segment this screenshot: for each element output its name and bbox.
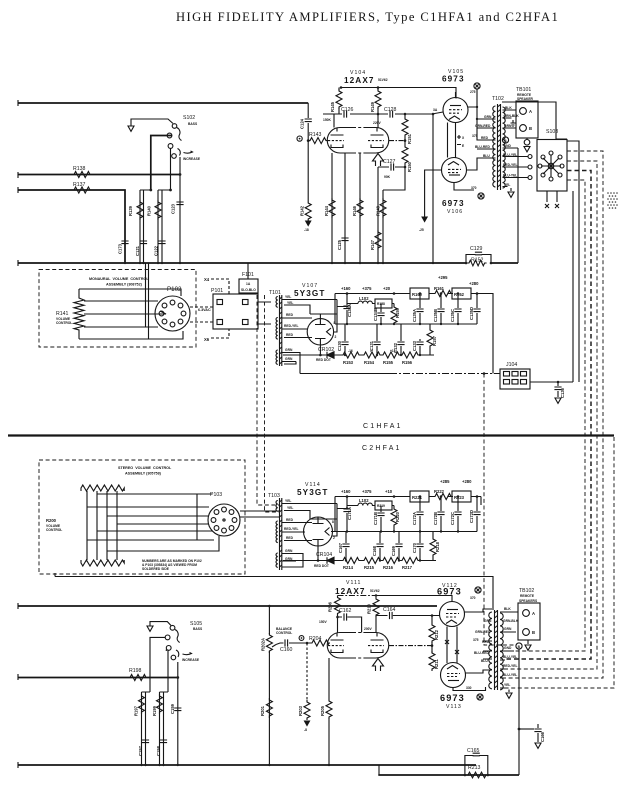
svg-text:T103: T103 <box>268 493 280 499</box>
svg-text:R216: R216 <box>383 565 394 570</box>
svg-text:12AX7: 12AX7 <box>344 76 375 85</box>
svg-text:YEL: YEL <box>287 506 293 510</box>
svg-text:+375: +375 <box>362 286 372 291</box>
svg-text:R149: R149 <box>370 101 375 112</box>
svg-text:INCREASE: INCREASE <box>183 157 201 161</box>
svg-text:YEL: YEL <box>285 499 291 503</box>
svg-text:C135A: C135A <box>412 309 417 322</box>
svg-text:R143: R143 <box>309 132 322 138</box>
svg-text:R139: R139 <box>128 205 133 216</box>
svg-text:C167: C167 <box>338 542 343 553</box>
svg-text:BLU-RED: BLU-RED <box>475 145 490 149</box>
svg-text:C172A: C172A <box>412 512 417 525</box>
svg-text:+375: +375 <box>362 489 372 494</box>
svg-text:C136: C136 <box>560 387 565 398</box>
svg-text:+285: +285 <box>440 479 450 484</box>
svg-text:GRN: GRN <box>285 549 293 553</box>
svg-text:375: 375 <box>472 134 478 138</box>
svg-text:BASS: BASS <box>188 122 198 126</box>
svg-text:+280: +280 <box>469 281 479 286</box>
svg-text:51V62: 51V62 <box>378 78 388 82</box>
svg-text:C171B: C171B <box>373 512 378 525</box>
svg-text:GRN: GRN <box>504 627 512 631</box>
svg-text:R148: R148 <box>376 205 381 216</box>
svg-text:R206: R206 <box>328 601 333 612</box>
svg-text:150K: 150K <box>323 118 332 122</box>
svg-text:51V62: 51V62 <box>370 589 380 593</box>
svg-text:-25: -25 <box>419 228 424 232</box>
svg-text:GND: GND <box>504 646 512 650</box>
svg-text:275: 275 <box>470 90 476 94</box>
svg-text:BLK: BLK <box>504 607 511 611</box>
svg-text:S102: S102 <box>183 115 195 121</box>
svg-text:RED: RED <box>286 313 294 317</box>
svg-text:A: A <box>529 109 532 114</box>
svg-text:C122: C122 <box>154 245 159 256</box>
svg-text:2: 2 <box>333 536 335 540</box>
svg-text:STEREO VOLUME CONTROL: STEREO VOLUME CONTROL <box>118 466 172 470</box>
svg-text:R200: R200 <box>46 518 57 523</box>
svg-text:5Y3GT: 5Y3GT <box>297 488 328 497</box>
svg-text:+280: +280 <box>462 479 472 484</box>
svg-text:R223: R223 <box>454 495 465 500</box>
svg-text:C132: C132 <box>393 342 398 353</box>
svg-text:6973: 6973 <box>440 693 465 703</box>
svg-text:R151: R151 <box>407 133 412 144</box>
svg-text:6973: 6973 <box>442 75 465 84</box>
svg-text:C158: C158 <box>156 745 161 756</box>
svg-text:R217: R217 <box>402 565 413 570</box>
svg-text:T102: T102 <box>492 96 504 102</box>
svg-text:6973: 6973 <box>442 199 465 208</box>
svg-text:GRN-RED: GRN-RED <box>475 124 491 128</box>
svg-text:V113: V113 <box>446 704 462 710</box>
svg-text:BLU: BLU <box>483 154 490 158</box>
svg-text:3A: 3A <box>433 108 438 112</box>
svg-text:+160: +160 <box>341 286 351 291</box>
svg-text:R212: R212 <box>434 629 439 640</box>
svg-text:P101: P101 <box>211 288 223 294</box>
svg-text:5Y3GT: 5Y3GT <box>294 289 325 298</box>
svg-text:BLK: BLK <box>505 106 512 110</box>
svg-text:C135C: C135C <box>450 309 455 322</box>
svg-text:R155: R155 <box>383 360 394 365</box>
svg-text:B: B <box>532 630 535 635</box>
svg-text:C169: C169 <box>391 545 396 556</box>
svg-text:-8: -8 <box>304 728 307 732</box>
svg-text:+20: +20 <box>383 286 391 291</box>
svg-text:C124: C124 <box>300 118 305 129</box>
svg-text:R157: R157 <box>432 335 437 346</box>
svg-text:SPEAKERS: SPEAKERS <box>519 599 538 603</box>
svg-text:C157: C157 <box>138 745 143 756</box>
svg-text:R220: R220 <box>395 511 400 522</box>
svg-text:RED DOT: RED DOT <box>316 358 331 362</box>
svg-text:R218: R218 <box>435 541 440 552</box>
svg-text:R146: R146 <box>352 205 357 216</box>
svg-text:R160: R160 <box>412 292 423 297</box>
svg-text:-18: -18 <box>304 228 309 232</box>
svg-text:L102: L102 <box>359 296 369 301</box>
svg-text:GRN: GRN <box>504 124 512 128</box>
svg-text:R201: R201 <box>260 705 265 716</box>
svg-text:R205: R205 <box>320 705 325 716</box>
svg-text:R221: R221 <box>412 495 423 500</box>
svg-text:2: 2 <box>335 335 337 339</box>
svg-text:R161: R161 <box>434 286 445 291</box>
svg-text:MONAURAL VOLUME CONTROL: MONAURAL VOLUME CONTROL <box>89 277 149 281</box>
svg-text:BLU-YEL: BLU-YEL <box>503 174 517 178</box>
svg-text:A: A <box>532 611 535 616</box>
svg-text:BLU: BLU <box>481 659 488 663</box>
svg-text:V111: V111 <box>346 580 361 586</box>
svg-text:GND: GND <box>504 144 512 148</box>
svg-text:V106: V106 <box>447 209 463 215</box>
svg-text:12AX7: 12AX7 <box>335 587 366 596</box>
svg-text:R137: R137 <box>73 182 86 188</box>
svg-text:220V: 220V <box>373 121 382 125</box>
svg-text:+10: +10 <box>385 489 393 494</box>
svg-text:J104: J104 <box>506 362 517 368</box>
svg-text:C133: C133 <box>412 340 417 351</box>
svg-text:RED-YEL: RED-YEL <box>503 664 517 668</box>
svg-text:C162: C162 <box>339 608 352 614</box>
svg-text:RED: RED <box>286 518 294 522</box>
svg-text:8: 8 <box>332 520 334 524</box>
svg-text:YEL: YEL <box>504 183 510 187</box>
svg-text:R210: R210 <box>367 603 372 614</box>
svg-text:GRN: GRN <box>484 115 492 119</box>
svg-text:GRN: GRN <box>484 619 492 623</box>
svg-text:R138: R138 <box>73 166 86 172</box>
svg-text:C172C: C172C <box>450 512 455 525</box>
svg-text:R215: R215 <box>364 565 375 570</box>
svg-text:6.3VAC: 6.3VAC <box>198 308 211 312</box>
svg-text:C170: C170 <box>412 542 417 553</box>
svg-text:B: B <box>529 126 532 131</box>
svg-text:R211: R211 <box>434 659 439 669</box>
svg-text:RED: RED <box>286 333 294 337</box>
svg-text:R199: R199 <box>152 705 157 716</box>
svg-text:C172D: C172D <box>469 510 474 523</box>
svg-text:C126: C126 <box>341 107 354 113</box>
svg-text:C172B: C172B <box>433 512 438 525</box>
svg-text:+160: +160 <box>341 489 351 494</box>
svg-text:INCREASE: INCREASE <box>182 658 200 662</box>
svg-text:C168: C168 <box>372 545 377 556</box>
svg-text:R154: R154 <box>364 360 375 365</box>
svg-text:R159: R159 <box>395 307 400 318</box>
svg-text:R142: R142 <box>300 205 305 216</box>
svg-text:C160: C160 <box>280 647 293 653</box>
svg-text:1A: 1A <box>246 282 251 286</box>
svg-text:C134B: C134B <box>373 308 378 321</box>
svg-text:C128: C128 <box>384 107 397 113</box>
svg-text:C127: C127 <box>383 159 396 165</box>
svg-text:375: 375 <box>473 638 479 642</box>
svg-text:C166: C166 <box>540 731 545 742</box>
svg-text:330: 330 <box>466 686 472 690</box>
svg-text:R153: R153 <box>343 360 354 365</box>
svg-text:CONTROL: CONTROL <box>276 631 292 635</box>
svg-text:R202A: R202A <box>261 638 266 651</box>
svg-text:BLU-RED: BLU-RED <box>474 651 489 655</box>
svg-text:C131: C131 <box>369 340 374 351</box>
svg-text:C159: C159 <box>170 703 175 714</box>
svg-text:C1HFA1: C1HFA1 <box>363 423 403 430</box>
svg-text:YEL: YEL <box>285 295 291 299</box>
svg-text:GRN: GRN <box>285 357 293 361</box>
svg-text:L102: L102 <box>359 498 369 503</box>
svg-text:P103: P103 <box>210 492 222 498</box>
svg-text:C123: C123 <box>171 203 176 214</box>
svg-text:YEL: YEL <box>287 301 293 305</box>
svg-text:ASSEMBLY (305758): ASSEMBLY (305758) <box>125 472 162 476</box>
svg-text:P102: P102 <box>167 286 182 293</box>
svg-text:370: 370 <box>470 596 476 600</box>
svg-text:X6: X6 <box>204 337 210 342</box>
svg-text:SPEAKER: SPEAKER <box>517 97 534 101</box>
svg-text:200V: 200V <box>364 627 373 631</box>
svg-text:HIGH FIDELITY AMPLIFIERS, Type: HIGH FIDELITY AMPLIFIERS, Type C1HFA1 an… <box>176 10 559 24</box>
svg-text:SLO-BLO: SLO-BLO <box>241 288 256 292</box>
svg-text:150V: 150V <box>319 620 328 624</box>
svg-text:6973: 6973 <box>437 587 462 597</box>
svg-text:GRN-BLK: GRN-BLK <box>503 619 519 623</box>
svg-text:C121: C121 <box>135 245 140 256</box>
svg-text:C129: C129 <box>470 246 483 252</box>
svg-text:RED-YEL: RED-YEL <box>284 527 298 531</box>
svg-text:C125: C125 <box>337 239 342 250</box>
svg-text:X4: X4 <box>204 277 210 282</box>
svg-text:C135D: C135D <box>469 307 474 320</box>
svg-text:BLU-YEL: BLU-YEL <box>503 655 517 659</box>
svg-text:R140: R140 <box>147 205 152 216</box>
svg-text:+295: +295 <box>438 275 448 280</box>
svg-text:RED-YEL: RED-YEL <box>284 324 298 328</box>
svg-text:RED: RED <box>481 136 489 140</box>
svg-text:R222: R222 <box>434 489 445 494</box>
svg-text:R214: R214 <box>343 565 354 570</box>
svg-text:BLU-YEL: BLU-YEL <box>503 153 517 157</box>
svg-text:R147: R147 <box>370 239 375 250</box>
svg-text:R144: R144 <box>324 205 329 216</box>
svg-text:RED DOT: RED DOT <box>314 564 329 568</box>
svg-text:R213: R213 <box>468 765 481 771</box>
svg-text:C173: C173 <box>118 243 123 254</box>
svg-text:C135B: C135B <box>433 309 438 322</box>
svg-text:90K: 90K <box>384 175 391 179</box>
svg-text:RED-YEL: RED-YEL <box>503 163 517 167</box>
svg-text:CONTROL: CONTROL <box>46 528 62 532</box>
svg-text:SOLDERED SIDE: SOLDERED SIDE <box>142 567 170 571</box>
svg-text:C2HFA1: C2HFA1 <box>362 445 402 452</box>
svg-text:-16: -16 <box>348 349 353 353</box>
svg-text:YEL: YEL <box>504 683 510 687</box>
svg-text:R156: R156 <box>402 360 413 365</box>
svg-text:R198: R198 <box>129 668 142 674</box>
svg-text:CONTROL: CONTROL <box>56 321 72 325</box>
svg-text:GRN: GRN <box>285 348 293 352</box>
svg-text:R197: R197 <box>134 705 139 716</box>
svg-text:CR102: CR102 <box>318 347 334 353</box>
svg-text:REMOTE: REMOTE <box>520 594 535 598</box>
svg-text:ASSEMBLY (308752): ASSEMBLY (308752) <box>106 283 143 287</box>
svg-text:C130: C130 <box>337 340 342 351</box>
svg-text:R145: R145 <box>330 101 335 112</box>
svg-text:BLU-YEL: BLU-YEL <box>503 673 517 677</box>
svg-text:R150: R150 <box>407 161 412 172</box>
svg-text:CR104: CR104 <box>316 552 332 558</box>
svg-text:GRN-BLK: GRN-BLK <box>504 114 520 118</box>
svg-text:RED: RED <box>286 536 294 540</box>
svg-text:R203: R203 <box>298 705 303 716</box>
svg-text:C164: C164 <box>383 607 396 613</box>
svg-text:370: 370 <box>471 186 477 190</box>
svg-text:R162: R162 <box>454 292 465 297</box>
svg-text:BASS: BASS <box>193 627 203 631</box>
